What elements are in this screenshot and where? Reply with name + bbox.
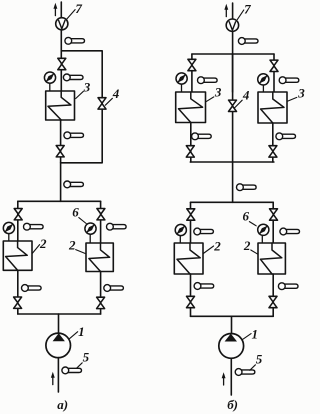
wire: left branch drop (section 2) [190,202,192,243]
label 2 (left) [203,239,221,254]
thermometer (left, after heater 3) [192,133,212,140]
thermometer (left branch bottom) [22,285,42,292]
valve (right branch top) [97,209,105,220]
wire: split header [192,53,274,55]
pump 1 [46,333,71,358]
thermometer (above section header) [64,181,84,188]
valve (left, below heater 3) [186,146,194,157]
wire: upper header of heaters 2 [18,200,101,202]
label 3 [76,80,91,99]
thermometer (right branch bottom) [104,285,124,292]
valve (right branch bottom) [97,297,105,308]
label 4 [105,86,119,105]
heat exchanger 2 (right) [258,243,285,274]
svg-text:а): а) [57,397,68,412]
svg-text:5: 5 [256,352,263,367]
flow arrow (outlet, top) [53,3,57,16]
svg-text:3: 3 [214,84,222,99]
pressure gauge 6 (right heater 2) [258,224,269,243]
flow indicator 7 [56,18,68,30]
svg-text:7: 7 [75,1,82,16]
wire: main supply line [232,3,234,92]
svg-text:2: 2 [243,238,251,253]
label 4 [235,88,250,108]
valve (below heater 3) [56,146,64,157]
thermometer (right branch) [107,223,127,230]
wire: center line through valve 4 [232,54,234,202]
wire: right branch bottom [272,274,274,316]
label 7 [66,1,82,20]
valve (right, below heater 3) [269,146,277,157]
flow indicator 7 [226,19,238,31]
wire: left branch bottom [190,274,192,316]
wire: main supply line top [60,2,62,91]
pressure gauge (at heater 3) [44,72,55,91]
wire: pump suction [230,358,232,395]
svg-text:3: 3 [297,85,305,100]
svg-text:6: 6 [72,205,79,220]
pressure gauge (right heater 3) [258,74,269,92]
svg-text:6: 6 [243,209,250,224]
wire: bypass line [61,51,103,163]
svg-text:2: 2 [68,238,76,253]
pressure gauge (left heater 3) [176,73,187,92]
valve (left branch top) [14,209,22,220]
thermometer (left branch) [24,223,44,230]
valve (right, above heater 3) [270,60,278,71]
label 2 (right) [68,238,86,254]
thermometer (before heater 3) [63,74,83,81]
valve (left branch top) [187,209,195,220]
heat exchanger 3 (left) [176,92,206,123]
heat exchanger 2 (left) [174,243,203,274]
wire: left branch drop [17,201,19,241]
svg-text:2: 2 [39,236,47,251]
wire: pump suction [57,358,59,392]
wire: right branch drop [100,201,102,243]
svg-text:4: 4 [242,88,250,103]
thermometer 5 [62,367,82,374]
flow arrow (inlet, bottom) [222,372,226,385]
wire: right sub-branch drop [273,54,275,92]
wire: heater 3 outlet down to section header [60,120,62,201]
valve 4 (center) [229,100,237,111]
pressure gauge 6 (right heater 2) [85,223,96,243]
svg-text:б): б) [227,397,238,412]
thermometer (above section 2 header) [237,184,257,191]
svg-text:4: 4 [112,86,120,101]
thermometer (right, after heater 3) [276,133,296,140]
valve (left, above heater 3) [188,59,196,70]
thermometer 5 [235,369,255,376]
thermometer (top) [65,37,85,44]
svg-text:5: 5 [83,350,90,365]
label 6 [72,205,86,224]
label 3 (right) [287,85,305,101]
wire: rejoin header [190,161,274,163]
pressure gauge (left heater 2) [175,224,186,243]
valve (right branch bottom) [269,296,277,307]
label 2 (right) [243,238,258,255]
valve (left branch bottom) [187,296,195,307]
svg-text:3: 3 [83,80,91,95]
pump 1 [219,334,244,359]
label 7 [237,2,251,20]
wire: lower header [191,315,274,317]
label 3 (left) [206,84,222,102]
valve (left branch bottom) [14,297,22,308]
thermometer (right branch bottom) [278,283,298,290]
thermometer (after heater 3) [64,132,84,139]
wire: right heater 3 outlet [272,123,274,162]
wire: upper header of heaters 2 [191,201,274,203]
heat exchanger 2 (left) [3,241,32,270]
heat exchanger 3 [46,91,75,120]
flow arrow (outlet, top) [224,4,228,17]
wire: left sub-branch drop [191,54,193,92]
valve 4 (bypass) [98,98,106,109]
label 1 [70,324,85,339]
svg-text:1: 1 [78,324,85,339]
svg-text:7: 7 [244,2,251,17]
wire: left branch bottom [17,270,19,314]
wire: header to pump [231,316,233,334]
valve (above heater 3) [58,58,66,69]
thermometer (left branch) [194,228,214,235]
wire: right branch drop (section 2) [272,202,274,243]
label 2 (left) [32,236,47,253]
wire: header to pump [58,314,60,334]
thermometer (left, before heater 3) [198,77,218,84]
label 5 [250,352,263,371]
label 5 [77,350,90,369]
thermometer (top) [238,38,258,45]
wire: left heater 3 outlet [190,123,192,163]
wire: lower header [18,313,101,315]
flow arrow (inlet, bottom) [51,372,55,385]
heat exchanger 3 (right) [258,92,287,123]
svg-text:1: 1 [252,327,259,342]
label 6 [243,209,257,226]
label 1 [243,327,258,342]
svg-text:2: 2 [213,239,221,254]
wire: right branch bottom [100,272,102,315]
pressure gauge (left heater 2) [3,222,14,241]
valve (right branch top) [270,209,278,220]
heat exchanger 2 (right) [86,243,113,272]
thermometer (right, before heater 3) [279,77,299,84]
thermometer (right branch) [280,228,300,235]
thermometer (left branch bottom) [194,283,214,290]
